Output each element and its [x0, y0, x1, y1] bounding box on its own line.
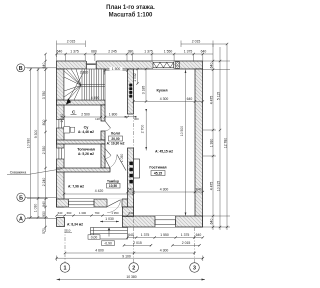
svg-text:4 300: 4 300	[160, 249, 169, 253]
svg-text:1 375: 1 375	[141, 233, 150, 237]
svg-text:1 300: 1 300	[79, 211, 87, 215]
svg-text:Кухня: Кухня	[156, 89, 167, 93]
svg-text:А: 5,26 м2: А: 5,26 м2	[78, 152, 94, 156]
svg-text:3 780: 3 780	[42, 91, 46, 100]
svg-text:2 015: 2 015	[67, 40, 76, 44]
svg-text:0,00: 0,00	[91, 235, 98, 239]
svg-text:640: 640	[196, 233, 202, 237]
svg-text:План 1-го этажа.: План 1-го этажа.	[106, 5, 155, 11]
svg-text:4 490: 4 490	[91, 96, 100, 100]
svg-text:640: 640	[57, 49, 63, 53]
svg-text:640: 640	[209, 63, 213, 69]
svg-text:4 300: 4 300	[160, 188, 169, 192]
svg-text:10 315: 10 315	[216, 181, 220, 191]
svg-text:Топочная: Топочная	[77, 148, 95, 152]
svg-text:Холл: Холл	[111, 132, 121, 136]
svg-text:1 550: 1 550	[160, 233, 169, 237]
svg-text:360: 360	[134, 117, 139, 121]
svg-text:2 500: 2 500	[81, 113, 90, 117]
svg-text:А: 8,34 м2: А: 8,34 м2	[67, 223, 83, 227]
svg-text:1 500: 1 500	[112, 67, 121, 71]
svg-text:1 800: 1 800	[109, 113, 118, 117]
svg-text:790: 790	[95, 211, 100, 215]
svg-text:Гостиная: Гостиная	[149, 166, 166, 170]
svg-text:10,50: 10,50	[109, 184, 117, 188]
svg-text:2 245: 2 245	[108, 49, 117, 53]
svg-text:930: 930	[42, 211, 46, 217]
svg-text:2: 2	[132, 266, 135, 272]
svg-text:12 780: 12 780	[223, 138, 227, 148]
svg-text:2 240: 2 240	[42, 178, 46, 187]
svg-text:10 380: 10 380	[126, 275, 136, 279]
svg-text:2 530: 2 530	[42, 146, 46, 155]
svg-text:2 015: 2 015	[192, 40, 201, 44]
svg-text:1 375: 1 375	[184, 49, 193, 53]
svg-text:1 550: 1 550	[164, 49, 173, 53]
svg-text:640: 640	[58, 211, 63, 215]
svg-text:1 930: 1 930	[209, 139, 213, 148]
svg-text:Скважина: Скважина	[10, 170, 26, 174]
svg-text:А: 45,15 м2: А: 45,15 м2	[155, 150, 173, 154]
svg-text:Масштаб 1:100: Масштаб 1:100	[109, 12, 153, 19]
svg-text:2 700: 2 700	[140, 125, 144, 134]
svg-text:640: 640	[128, 188, 134, 192]
svg-text:4 475: 4 475	[209, 96, 213, 105]
svg-text:А: 7,96 м2: А: 7,96 м2	[68, 185, 84, 189]
svg-text:1: 1	[64, 266, 67, 272]
svg-text:4 300: 4 300	[160, 97, 169, 101]
svg-text:4 600: 4 600	[95, 249, 104, 253]
svg-text:1 032: 1 032	[133, 73, 137, 82]
svg-text:1 375: 1 375	[144, 49, 153, 53]
svg-text:1 375: 1 375	[70, 49, 79, 53]
svg-text:45,15: 45,15	[154, 172, 162, 176]
svg-text:9 300: 9 300	[34, 130, 38, 139]
svg-text:5 115: 5 115	[216, 92, 220, 100]
svg-text:800: 800	[42, 120, 46, 126]
svg-text:1 950: 1 950	[111, 211, 119, 215]
svg-text:10 930: 10 930	[27, 138, 31, 148]
svg-text:680: 680	[91, 49, 97, 53]
svg-text:2 030: 2 030	[80, 70, 89, 74]
svg-text:690: 690	[67, 211, 72, 215]
svg-text:4 475: 4 475	[209, 182, 213, 191]
svg-text:640: 640	[201, 49, 207, 53]
svg-text:570: 570	[42, 228, 46, 234]
svg-text:1 050: 1 050	[120, 154, 124, 163]
svg-text:840: 840	[42, 201, 46, 207]
svg-text:640: 640	[42, 63, 46, 69]
svg-text:3 185: 3 185	[141, 86, 145, 95]
svg-text:А: 4,46 м2: А: 4,46 м2	[78, 130, 94, 134]
svg-text:А: 19,30 м2: А: 19,30 м2	[107, 141, 125, 145]
svg-text:В: В	[19, 66, 23, 72]
svg-text:А: А	[19, 216, 23, 222]
svg-text:640: 640	[209, 219, 213, 225]
svg-text:4 420: 4 420	[95, 189, 104, 193]
svg-text:640: 640	[196, 188, 202, 192]
svg-text:120: 120	[95, 117, 100, 121]
svg-text:1 030: 1 030	[105, 217, 114, 221]
svg-text:510: 510	[66, 228, 71, 232]
svg-text:640: 640	[129, 211, 134, 215]
svg-text:1 030: 1 030	[34, 204, 38, 213]
svg-text:640: 640	[187, 97, 193, 101]
svg-text:9 100: 9 100	[122, 254, 131, 258]
svg-text:2 015: 2 015	[182, 241, 191, 245]
svg-text:2 340: 2 340	[60, 114, 64, 123]
svg-text:3: 3	[193, 266, 196, 272]
svg-text:-0,90: -0,90	[104, 241, 112, 245]
svg-text:1 375: 1 375	[181, 233, 190, 237]
svg-text:Б: Б	[19, 195, 23, 201]
svg-text:Тамбур: Тамбур	[107, 180, 119, 184]
svg-text:640: 640	[128, 233, 134, 237]
svg-text:380: 380	[128, 49, 134, 53]
svg-text:2 015: 2 015	[133, 241, 142, 245]
svg-text:10 500: 10 500	[180, 126, 184, 136]
